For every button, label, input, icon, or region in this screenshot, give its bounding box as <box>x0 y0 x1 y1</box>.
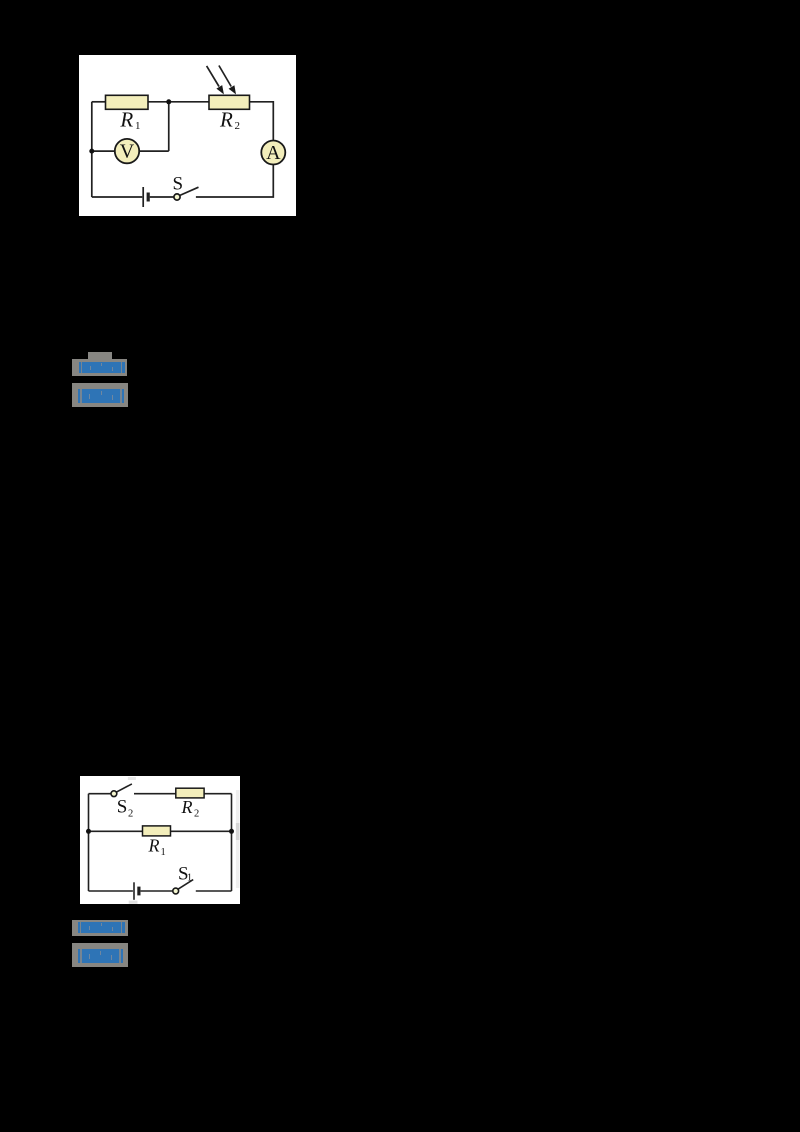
svg-text:R: R <box>119 108 133 132</box>
svg-text:1: 1 <box>161 847 166 858</box>
svg-text:S: S <box>117 797 128 818</box>
svg-text:2: 2 <box>235 120 241 132</box>
svg-text:V: V <box>120 141 135 163</box>
svg-text:2: 2 <box>128 808 133 819</box>
svg-text:R: R <box>219 108 233 132</box>
svg-text:A: A <box>266 142 281 164</box>
svg-text:2: 2 <box>194 809 199 820</box>
svg-text:1: 1 <box>187 872 192 883</box>
svg-text:R: R <box>148 836 160 856</box>
svg-text:S: S <box>173 174 184 195</box>
svg-text:1: 1 <box>135 120 141 132</box>
svg-text:R: R <box>181 797 193 817</box>
